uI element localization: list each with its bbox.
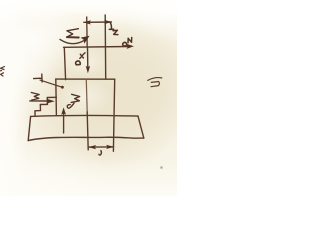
force arrow Px shaft bbox=[87, 47, 89, 68]
wire: top horizontal column top / Pz line bbox=[64, 46, 130, 49]
wire: slab right edge bbox=[138, 116, 144, 138]
moment arc M bbox=[60, 39, 85, 43]
label Px letter x (rotated) bbox=[80, 53, 85, 59]
force arrow Wf shaft bbox=[63, 113, 65, 134]
label Pz letter P (rotated) bbox=[123, 42, 127, 46]
dimension l line bottom bbox=[89, 146, 114, 148]
label figure letter з) (rotated) bbox=[148, 78, 162, 87]
arrowhead Px bbox=[86, 66, 90, 74]
label M (rotated) bbox=[67, 29, 79, 38]
arrowhead dim l left bbox=[88, 145, 96, 149]
force arrow W shaft bbox=[30, 100, 48, 102]
stray speck bbox=[160, 166, 163, 169]
label 1 (rotated) bbox=[34, 74, 43, 82]
arrowhead Pz bbox=[127, 44, 134, 49]
page edge text fragments bbox=[0, 67, 5, 77]
wire: block right edge long vertical bbox=[113, 79, 114, 151]
arrowhead Wf bbox=[61, 107, 66, 114]
arrowhead dim l1 right bbox=[104, 20, 112, 24]
arrowhead dim l1 left bbox=[84, 20, 91, 24]
arrowhead M arc bbox=[81, 36, 90, 44]
label l bottom (rotated) bbox=[99, 151, 102, 156]
arrowhead W bbox=[46, 99, 55, 104]
wire: slab bottom wavy edge bbox=[28, 137, 144, 140]
dimension l1 tick bbox=[86, 17, 89, 47]
label Wf letter W (rotated) bbox=[71, 94, 80, 102]
wire: column right edge extended up bbox=[104, 15, 107, 79]
label Pz letter z (rotated, N-like) bbox=[128, 38, 132, 43]
wire: slab top edge bbox=[31, 114, 138, 117]
arrowhead dim l right bbox=[106, 145, 114, 149]
leader dot node bbox=[61, 86, 64, 89]
wire: block top edge bbox=[56, 78, 115, 80]
leader line for label 1 bbox=[40, 80, 62, 87]
label l1 (rotated) bbox=[109, 23, 118, 35]
label Wf subscript f loop (rotated) bbox=[67, 103, 74, 108]
wire: steps left profile bbox=[55, 79, 58, 115]
dimension l1 line top bbox=[84, 21, 112, 23]
label W (rotated) bbox=[31, 93, 39, 101]
label Px letter P (rotated) bbox=[76, 61, 81, 65]
wire: axis left vertical bbox=[85, 80, 88, 112]
wire: slab left edge bbox=[28, 116, 30, 140]
wire: column left edge bbox=[64, 47, 65, 79]
